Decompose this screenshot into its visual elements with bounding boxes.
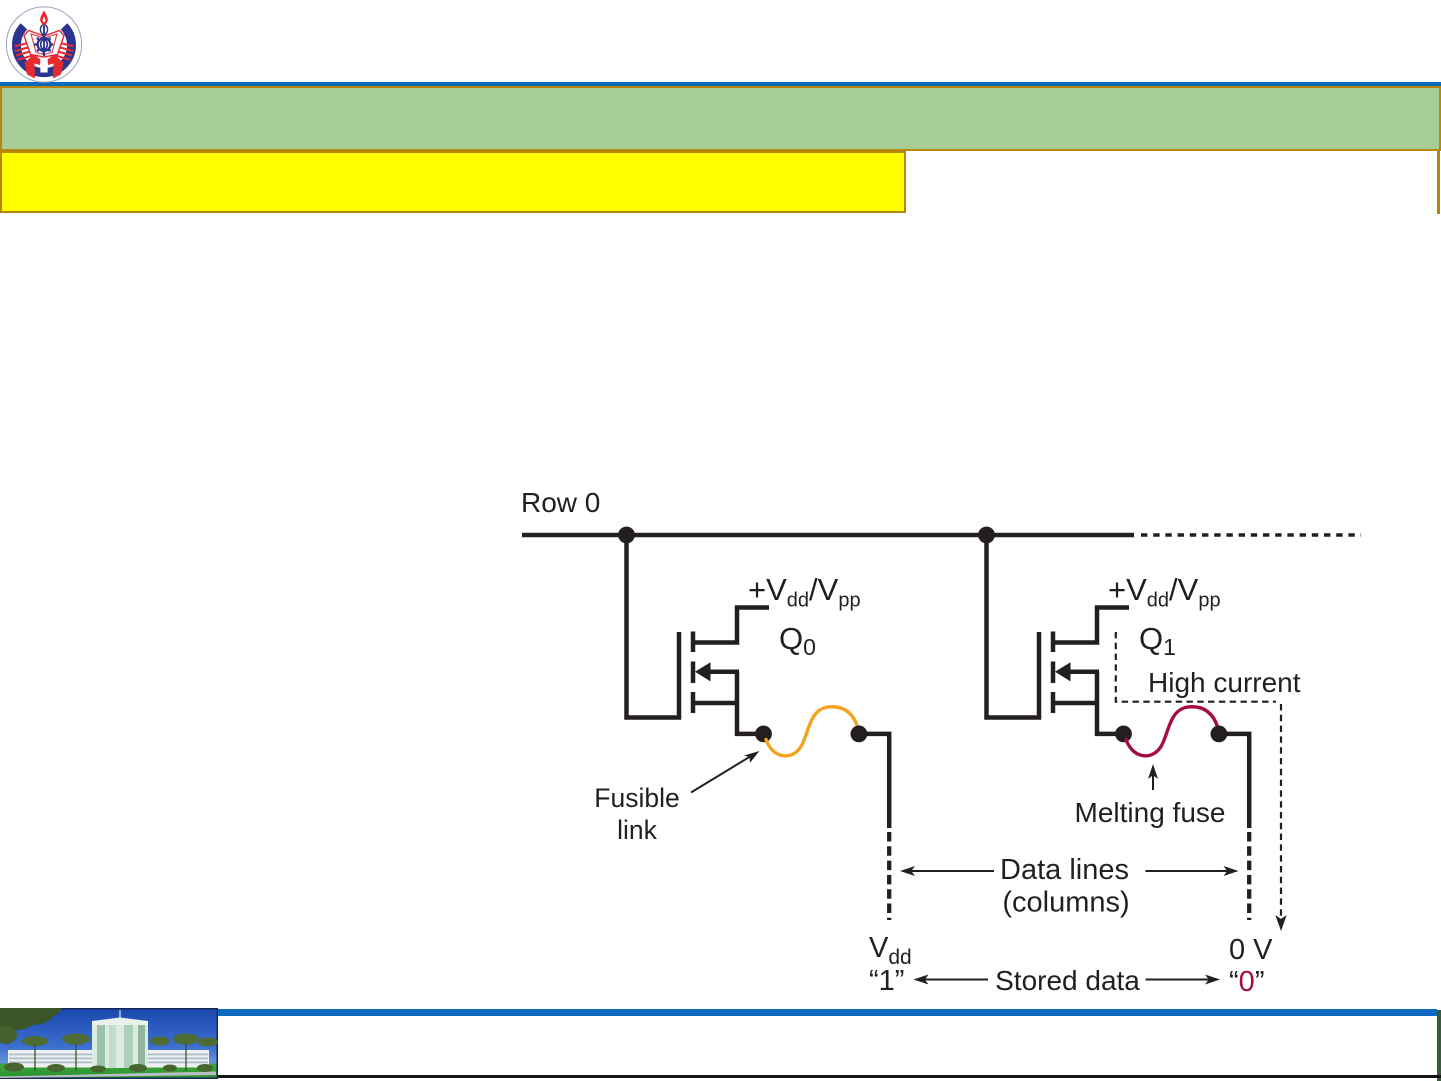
svg-text:Vdd: Vdd [869, 932, 912, 969]
node fuse F1 right terminal [1211, 726, 1228, 743]
svg-text:link: link [617, 815, 658, 845]
svg-text:Q1: Q1 [1139, 621, 1176, 660]
wire row 0 bus (solid) [522, 533, 1134, 538]
svg-text:High current: High current [1148, 667, 1301, 698]
bottom blue rule [0, 1009, 1437, 1016]
label Q0 [779, 621, 816, 660]
svg-text:Fusible: Fusible [594, 783, 679, 813]
arrow high-current down (dashed with head) [1280, 704, 1282, 918]
wire high-current dashed path [1116, 632, 1276, 702]
arrow data-lines right [1146, 870, 1229, 872]
node fuse F0 left terminal [755, 726, 772, 743]
label +Vdd/Vpp (Q1) [1108, 572, 1221, 612]
right-edge photo sliver [1437, 1010, 1441, 1081]
label Row 0 [521, 487, 600, 518]
node junction row0/gate Q1 [978, 527, 995, 544]
campus photo (bottom-left) [0, 1008, 218, 1079]
svg-text:Data lines: Data lines [1000, 854, 1129, 886]
label +Vdd/Vpp (Q0) [748, 572, 861, 612]
arrow data-lines left [910, 870, 994, 872]
top blue rule [0, 82, 1441, 86]
wire F0 to data line 0 [866, 734, 889, 828]
svg-text:“1”: “1” [869, 965, 904, 997]
label Melting fuse [1075, 797, 1226, 828]
university logo (emblem) [4, 4, 84, 84]
yellow subtitle band [0, 151, 906, 213]
svg-text:0 V: 0 V [1229, 934, 1273, 966]
svg-text:+Vdd/Vpp: +Vdd/Vpp [1108, 572, 1221, 612]
svg-text:+Vdd/Vpp: +Vdd/Vpp [748, 572, 861, 612]
svg-text:“0”: “0” [1229, 966, 1264, 998]
green title band [0, 86, 1441, 151]
label 0 V (data value node) [1229, 934, 1273, 966]
label Stored data [995, 965, 1140, 996]
svg-text:Melting fuse: Melting fuse [1075, 797, 1226, 828]
transistor Q0 [679, 608, 769, 734]
transistor Q1 [1039, 608, 1129, 734]
svg-text:(columns): (columns) [1002, 887, 1129, 919]
svg-text:Q0: Q0 [779, 621, 816, 660]
node fuse F0 right terminal [851, 726, 868, 743]
label Fusible link [594, 783, 679, 845]
node fuse F1 left terminal [1115, 726, 1132, 743]
node junction row0/gate Q0 [618, 527, 635, 544]
label Data lines (columns) [1000, 854, 1130, 919]
fuse F1 melting fuse (maroon) [1126, 707, 1218, 756]
fuse F0 fusible link (intact, orange) [766, 707, 858, 756]
label stored "0" [1229, 966, 1264, 998]
wire gate feed Q1 [987, 535, 1042, 718]
label Vdd (data value node) [869, 932, 912, 969]
label High current [1148, 667, 1301, 698]
arrow melting fuse pointer [1152, 772, 1154, 790]
wire data line 0 (dashed) [887, 832, 891, 920]
arrow fusible link pointer [691, 756, 751, 793]
wire gate feed Q0 [627, 535, 682, 718]
label Q1 [1139, 621, 1176, 660]
arrow stored-data left [923, 979, 988, 981]
bottom black rule [0, 1075, 1441, 1078]
svg-text:Stored data: Stored data [995, 965, 1140, 996]
svg-text:Row 0: Row 0 [521, 487, 600, 518]
wire row 0 bus (dashed continuation) [1141, 533, 1361, 536]
wire data line 1 (dashed) [1247, 832, 1251, 920]
right olive vertical rule [1437, 151, 1440, 214]
arrow stored-data right [1146, 979, 1211, 981]
wire F1 to data line 1 [1226, 734, 1249, 828]
label stored "1" [869, 965, 904, 997]
